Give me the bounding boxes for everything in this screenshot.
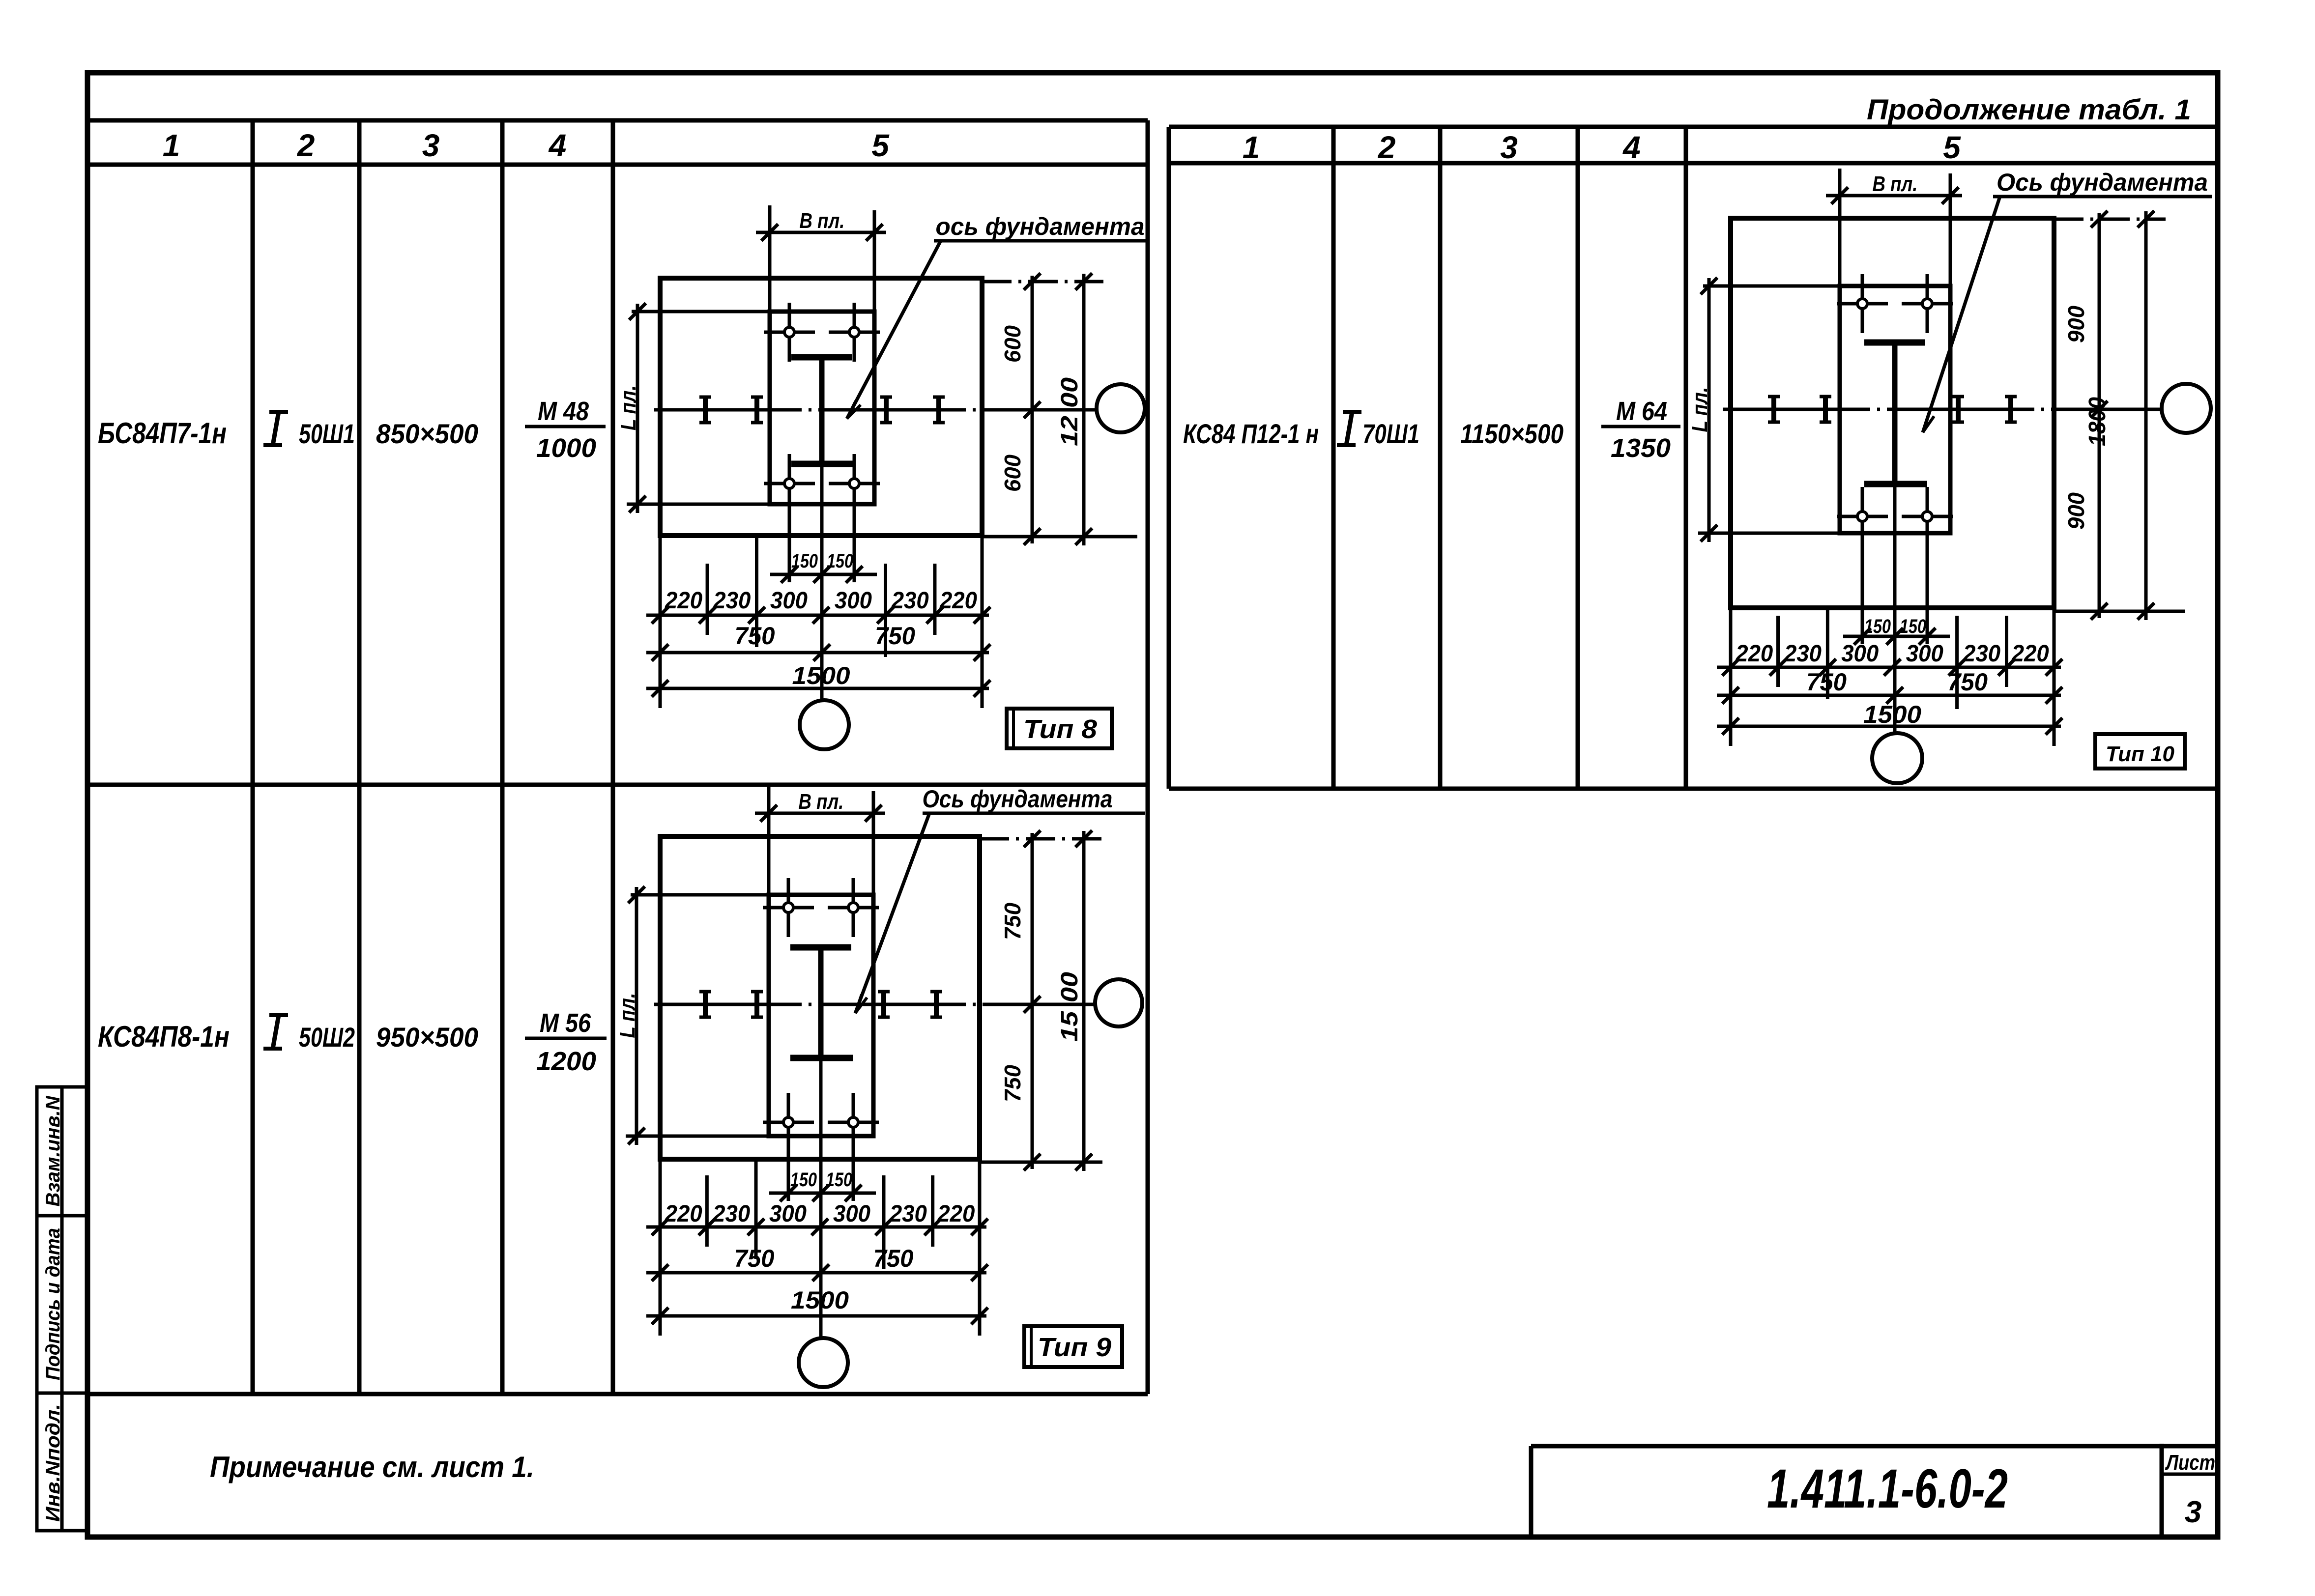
svg-text:300: 300 [835, 588, 872, 614]
svg-text:230: 230 [889, 1201, 927, 1227]
svg-text:3: 3 [2185, 1495, 2201, 1529]
svg-text:1200: 1200 [536, 1047, 596, 1076]
svg-text:КС84 П12-1 н: КС84 П12-1 н [1183, 418, 1319, 449]
svg-text:Ось фундамента: Ось фундамента [1997, 169, 2208, 196]
svg-text:750: 750 [873, 1245, 914, 1272]
svg-text:00: 00 [1057, 972, 1083, 1002]
svg-text:КС84П8-1н: КС84П8-1н [98, 1020, 230, 1053]
svg-text:150: 150 [791, 550, 818, 572]
svg-text:Примечание см. лист 1.: Примечание см. лист 1. [210, 1451, 534, 1483]
svg-text:900: 900 [2063, 492, 2089, 530]
svg-text:750: 750 [735, 622, 775, 650]
svg-text:50Ш2: 50Ш2 [299, 1022, 355, 1053]
svg-text:Тип 8: Тип 8 [1023, 714, 1097, 744]
svg-text:М 56: М 56 [540, 1008, 591, 1038]
svg-text:4: 4 [548, 128, 567, 163]
svg-text:230: 230 [1784, 641, 1822, 667]
svg-text:150: 150 [790, 1169, 817, 1191]
svg-text:600: 600 [1000, 455, 1025, 492]
svg-text:220: 220 [939, 588, 977, 614]
svg-text:220: 220 [2011, 641, 2049, 667]
svg-text:300: 300 [770, 588, 808, 614]
svg-text:L пл.: L пл. [616, 385, 640, 430]
svg-text:220: 220 [665, 588, 702, 614]
svg-text:Тип 10: Тип 10 [2106, 742, 2175, 766]
svg-text:1350: 1350 [1611, 433, 1671, 463]
svg-text:В пл.: В пл. [799, 790, 844, 814]
svg-text:220: 220 [665, 1201, 702, 1227]
svg-text:L пл.: L пл. [1688, 387, 1712, 432]
svg-text:2: 2 [297, 128, 315, 163]
svg-text:1: 1 [1243, 130, 1260, 165]
svg-text:15: 15 [1057, 1010, 1083, 1042]
svg-text:230: 230 [891, 588, 929, 614]
svg-text:150: 150 [827, 550, 853, 572]
svg-text:600: 600 [1000, 325, 1025, 363]
svg-text:Ось фундамента: Ось фундамента [923, 785, 1113, 813]
svg-text:3: 3 [422, 128, 440, 163]
svg-text:750: 750 [1000, 903, 1025, 940]
svg-text:1150×500: 1150×500 [1460, 418, 1563, 449]
svg-text:Инв.Nподл.: Инв.Nподл. [42, 1404, 64, 1522]
svg-text:150: 150 [1900, 616, 1926, 637]
svg-text:00: 00 [1057, 377, 1083, 408]
svg-text:БС84П7-1н: БС84П7-1н [98, 417, 227, 450]
svg-text:230: 230 [712, 1201, 750, 1227]
svg-text:Взам.инв.N: Взам.инв.N [42, 1095, 64, 1206]
svg-text:230: 230 [1963, 641, 2000, 667]
svg-text:5: 5 [1943, 130, 1961, 165]
svg-text:М 48: М 48 [538, 397, 589, 426]
svg-text:900: 900 [2063, 306, 2089, 343]
svg-text:Продолжение табл. 1: Продолжение табл. 1 [1867, 94, 2191, 126]
svg-text:2: 2 [1378, 130, 1396, 165]
svg-text:220: 220 [937, 1201, 975, 1227]
svg-text:750: 750 [1000, 1065, 1025, 1102]
svg-text:Подпись и дата: Подпись и дата [42, 1228, 64, 1380]
svg-text:850×500: 850×500 [376, 418, 478, 449]
svg-text:Лист: Лист [2165, 1451, 2215, 1475]
svg-text:1: 1 [163, 128, 180, 163]
svg-text:70Ш1: 70Ш1 [1362, 418, 1419, 449]
svg-text:5: 5 [871, 128, 890, 163]
svg-text:50Ш1: 50Ш1 [299, 418, 355, 449]
svg-text:150: 150 [1864, 616, 1891, 637]
svg-text:220: 220 [1735, 641, 1773, 667]
svg-text:Тип 9: Тип 9 [1038, 1333, 1111, 1362]
svg-text:4: 4 [1622, 130, 1641, 165]
svg-text:150: 150 [826, 1169, 852, 1191]
svg-text:300: 300 [1841, 641, 1879, 667]
svg-text:3: 3 [1500, 130, 1518, 165]
svg-text:230: 230 [713, 588, 751, 614]
svg-text:L пл.: L пл. [615, 993, 639, 1038]
svg-text:1.411.1-6.0-2: 1.411.1-6.0-2 [1767, 1458, 2008, 1519]
svg-text:300: 300 [1906, 641, 1943, 667]
svg-text:В пл.: В пл. [1873, 172, 1918, 196]
svg-text:12: 12 [1057, 416, 1083, 446]
svg-text:300: 300 [769, 1201, 807, 1227]
svg-text:950×500: 950×500 [376, 1022, 478, 1053]
svg-text:750: 750 [1947, 668, 1988, 696]
svg-text:В пл.: В пл. [800, 209, 845, 233]
svg-text:1000: 1000 [536, 433, 596, 463]
svg-text:М 64: М 64 [1616, 397, 1667, 426]
svg-text:1500: 1500 [1863, 701, 1921, 728]
svg-text:300: 300 [833, 1201, 870, 1227]
svg-text:ось фундамента: ось фундамента [936, 213, 1145, 240]
svg-text:1800: 1800 [2084, 397, 2111, 446]
svg-text:750: 750 [875, 622, 915, 650]
